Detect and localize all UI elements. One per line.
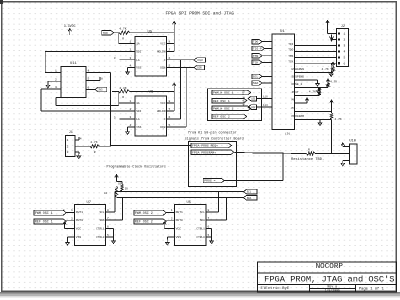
- svg-text:OUT0: OUT0: [76, 219, 83, 222]
- svg-text:MuxPad PT9: MuxPad PT9: [242, 90, 246, 106]
- svg-text:PROGRAM: PROGRAM: [292, 115, 305, 118]
- svg-text:8: 8: [169, 100, 171, 103]
- svg-text:TMS: TMS: [253, 55, 258, 58]
- svg-text:3: 3: [344, 45, 346, 48]
- svg-text:1K: 1K: [125, 188, 129, 191]
- svg-text:4.7K: 4.7K: [119, 27, 126, 30]
- svg-text:2: 2: [71, 217, 73, 220]
- svg-text:8: 8: [208, 209, 210, 212]
- svg-text:8: 8: [107, 209, 109, 212]
- svg-text:LA: LA: [136, 59, 140, 62]
- svg-text:6: 6: [169, 116, 171, 119]
- svg-text:TCK: TCK: [288, 61, 293, 64]
- svg-text:110: 110: [263, 96, 268, 99]
- svg-text:PWM OSC 2: PWM OSC 2: [135, 211, 153, 215]
- svg-text:1: 1: [55, 70, 57, 73]
- svg-text:4: 4: [88, 70, 90, 73]
- svg-text:OUT1: OUT1: [176, 211, 183, 214]
- svg-text:3.3VDC: 3.3VDC: [64, 24, 76, 28]
- svg-text:8: 8: [101, 77, 103, 80]
- svg-text:SDA: SDA: [200, 219, 205, 222]
- svg-text:5: 5: [208, 234, 210, 237]
- svg-text:7: 7: [107, 217, 109, 220]
- svg-text:TCK: TCK: [253, 61, 258, 64]
- svg-text:R: R: [122, 96, 124, 99]
- svg-text:4.7K: 4.7K: [119, 87, 126, 90]
- svg-text:OUT1: OUT1: [76, 211, 83, 214]
- svg-text:OUT0: OUT0: [176, 219, 183, 222]
- svg-text:5: 5: [107, 234, 109, 237]
- svg-text:5: 5: [169, 124, 171, 127]
- svg-text:TMS: TMS: [288, 55, 293, 58]
- svg-text:signals from Controller Board: signals from Controller Board: [185, 136, 244, 141]
- svg-text:R: R: [308, 149, 310, 152]
- svg-text:REF OSC 2: REF OSC 2: [135, 220, 153, 224]
- svg-text:LD: LD: [104, 192, 108, 195]
- svg-text:FPGA SPI PROM SDI and JTAG: FPGA SPI PROM SDI and JTAG: [166, 12, 235, 17]
- svg-text:2: 2: [130, 108, 132, 111]
- svg-text:CTRL1: CTRL1: [96, 228, 105, 231]
- svg-text:1: 1: [71, 209, 73, 212]
- svg-text:CTRL0: CTRL0: [196, 236, 205, 239]
- svg-text:DQ8: DQ8: [160, 126, 165, 129]
- svg-text:7: 7: [169, 108, 171, 111]
- svg-text:SDA: SDA: [99, 219, 104, 222]
- svg-text:TDO: TDO: [288, 49, 293, 52]
- svg-text:TDO: TDO: [103, 32, 108, 35]
- svg-text:D1: D1: [118, 183, 122, 186]
- svg-text:1: 1: [344, 33, 346, 36]
- svg-text:1: 1: [130, 100, 132, 103]
- svg-text:SDA: SDA: [247, 197, 252, 200]
- svg-text:PROG =: PROG =: [204, 179, 215, 183]
- svg-text:R: R: [94, 151, 96, 154]
- svg-text:VSS: VSS: [136, 66, 141, 69]
- svg-text:3: 3: [114, 116, 116, 119]
- svg-text:DQ8: DQ8: [160, 66, 165, 69]
- svg-text:TDO: TDO: [253, 41, 258, 44]
- svg-text:INIT: INIT: [292, 91, 299, 94]
- svg-text:7: 7: [169, 49, 171, 52]
- svg-text:SDI: SDI: [136, 51, 141, 54]
- svg-text:1: 1: [171, 209, 173, 212]
- svg-text:5: 5: [88, 78, 90, 81]
- svg-text:TDI: TDI: [288, 43, 293, 46]
- svg-text:4.7K: 4.7K: [335, 118, 342, 121]
- svg-text:VCC: VCC: [160, 102, 165, 105]
- svg-text:HSWAPEN: HSWAPEN: [292, 68, 305, 71]
- svg-text:J1: J1: [69, 131, 73, 135]
- svg-text:REF OSC 1: REF OSC 1: [35, 220, 53, 224]
- svg-text:SDI: SDI: [136, 110, 141, 113]
- svg-text:4: 4: [80, 138, 82, 141]
- svg-text:DONE_2: DONE_2: [292, 83, 303, 86]
- svg-text:4: 4: [344, 51, 346, 54]
- svg-text:VCC: VCC: [160, 43, 165, 46]
- svg-text:C: C: [164, 59, 166, 62]
- svg-text:PWM_H OSC 1: PWM_H OSC 1: [213, 91, 234, 95]
- svg-text:LA: LA: [136, 118, 140, 121]
- svg-text:CCLK: CCLK: [197, 59, 203, 62]
- svg-text:SDA: SDA: [253, 82, 258, 85]
- svg-text:VCC: VCC: [176, 228, 182, 231]
- svg-text:PWM_H OSC 2: PWM_H OSC 2: [213, 106, 234, 110]
- svg-text:3: 3: [130, 57, 132, 60]
- svg-text:3: 3: [130, 116, 132, 119]
- svg-text:5: 5: [169, 65, 171, 68]
- svg-text:U1: U1: [280, 30, 285, 34]
- svg-text:PWM OSC 1: PWM OSC 1: [35, 211, 53, 215]
- svg-text:U5: U5: [187, 201, 192, 205]
- svg-text:2: 2: [55, 78, 57, 81]
- svg-text:LD2: LD2: [251, 106, 256, 109]
- svg-text:R: R: [122, 38, 124, 41]
- svg-text:SUSPEND: SUSPEND: [292, 76, 305, 79]
- svg-text:3V3: 3V3: [98, 89, 103, 92]
- svg-text:from K1 50-pin connector: from K1 50-pin connector: [188, 131, 237, 136]
- svg-text:2: 2: [171, 217, 173, 220]
- svg-text:2: 2: [67, 145, 69, 148]
- svg-text:Programmable Clock Oscillators: Programmable Clock Oscillators: [107, 165, 166, 169]
- svg-text:4.7K: 4.7K: [90, 141, 97, 144]
- svg-text:Resistance TBD.: Resistance TBD.: [291, 157, 324, 162]
- svg-text:TDI-P: TDI-P: [253, 48, 262, 51]
- svg-text:1: 1: [130, 41, 132, 44]
- svg-text:VCC: VCC: [76, 228, 82, 231]
- svg-text:VSS: VSS: [136, 126, 141, 129]
- svg-text:6: 6: [169, 57, 171, 60]
- svg-text:2: 2: [344, 39, 346, 42]
- svg-text:FPGA PROM, JTAG and OSC'S: FPGA PROM, JTAG and OSC'S: [264, 275, 394, 285]
- svg-text:6: 6: [208, 225, 210, 228]
- svg-text:CTRL1: CTRL1: [196, 228, 205, 231]
- svg-text:3: 3: [67, 151, 69, 154]
- svg-text:VSS: VSS: [176, 236, 182, 239]
- svg-text:SCL: SCL: [99, 211, 104, 214]
- svg-text:NOCORP: NOCORP: [316, 263, 344, 271]
- svg-text:CTRL0: CTRL0: [96, 236, 105, 239]
- svg-text:M1: M1: [292, 107, 296, 110]
- svg-text:REF OSC 2: REF OSC 2: [213, 115, 230, 119]
- svg-text:4: 4: [130, 124, 132, 127]
- svg-text:J2: J2: [341, 25, 345, 29]
- svg-text:4.7K: 4.7K: [322, 68, 329, 71]
- svg-text:4: 4: [130, 65, 132, 68]
- svg-text:6: 6: [344, 62, 346, 65]
- svg-text:HOLDN: HOLDN: [157, 51, 166, 54]
- svg-text:VSS: VSS: [76, 236, 82, 239]
- svg-text:U7: U7: [87, 201, 92, 205]
- svg-text:ElEctric.ByE: ElEctric.ByE: [261, 286, 290, 291]
- svg-text:3: 3: [55, 86, 57, 89]
- svg-text:U10: U10: [349, 139, 355, 143]
- svg-text:1/5/2005: 1/5/2005: [325, 289, 340, 293]
- svg-text:7: 7: [208, 217, 210, 220]
- svg-text:4.7K: 4.7K: [309, 91, 316, 94]
- svg-text:U11: U11: [70, 62, 78, 66]
- svg-text:FPGA PROG REQ+: FPGA PROG REQ+: [192, 144, 218, 148]
- svg-text:2: 2: [130, 49, 132, 52]
- svg-text:6: 6: [107, 225, 109, 228]
- svg-text:SCL: SCL: [200, 211, 205, 214]
- svg-text:FPGA PROGRAM+: FPGA PROGRAM+: [192, 150, 216, 154]
- svg-text:SCL: SCL: [253, 76, 258, 79]
- svg-text:Page 1 of 1: Page 1 of 1: [359, 286, 385, 291]
- svg-text:6: 6: [88, 87, 90, 90]
- svg-text:C: C: [164, 118, 166, 121]
- svg-text:HOLDN: HOLDN: [157, 110, 166, 113]
- svg-text:1: 1: [63, 209, 65, 212]
- svg-text:8: 8: [169, 41, 171, 44]
- svg-text:LD1: LD1: [251, 98, 256, 101]
- svg-text:3: 3: [114, 57, 116, 60]
- svg-text:M0: M0: [292, 99, 296, 102]
- svg-text:DIN: DIN: [197, 67, 202, 70]
- svg-text:113: 113: [263, 104, 268, 107]
- svg-text:5: 5: [344, 57, 346, 60]
- svg-text:REF OSC 1: REF OSC 1: [213, 99, 230, 103]
- svg-text:1A: 1A: [136, 43, 140, 46]
- svg-text:1A: 1A: [136, 102, 140, 105]
- svg-text:1: 1: [67, 139, 69, 142]
- svg-text:(9): (9): [285, 131, 291, 135]
- svg-text:4.7K: 4.7K: [330, 81, 337, 84]
- svg-text:SCL: SCL: [247, 191, 252, 194]
